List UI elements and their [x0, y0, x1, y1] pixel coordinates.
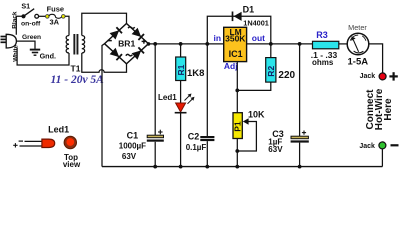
- svg-text:63V: 63V: [268, 145, 283, 154]
- wire C2: [206, 44, 208, 136]
- label - left: [108, 40, 112, 42]
- svg-text:10K: 10K: [248, 110, 265, 120]
- svg-text:Led1: Led1: [158, 93, 177, 102]
- wire wiper return: [237, 122, 256, 152]
- wire C3: [299, 44, 301, 136]
- node C3 bottom: [298, 165, 302, 169]
- svg-text:IC1: IC1: [229, 49, 243, 59]
- svg-text:R1: R1: [176, 64, 186, 75]
- svg-text:out: out: [252, 33, 265, 43]
- wire positive rail: [149, 43, 224, 45]
- svg-text:11 - 20v 5A: 11 - 20v 5A: [51, 74, 105, 86]
- node C2 bottom: [205, 165, 209, 169]
- svg-text:Fuse: Fuse: [47, 5, 65, 14]
- node C3 top: [298, 42, 302, 46]
- svg-text:Black: Black: [12, 11, 19, 29]
- wire P1 bottom: [236, 139, 238, 167]
- wire C1: [154, 44, 156, 135]
- resistor R1: [176, 57, 186, 81]
- node P1 bottom rail: [235, 165, 239, 169]
- svg-text:63V: 63V: [122, 152, 137, 161]
- wire R3 to meter: [339, 43, 347, 45]
- wire white (plug to primary bottom): [17, 48, 69, 65]
- switch S1: [21, 9, 38, 19]
- svg-text:Jack: Jack: [360, 73, 376, 80]
- label ~ bottom: [126, 54, 133, 55]
- svg-text:0.1µF: 0.1µF: [186, 143, 207, 152]
- svg-text:Jack: Jack: [359, 143, 375, 150]
- svg-text:on-off: on-off: [21, 21, 41, 28]
- svg-text:S1: S1: [21, 2, 30, 11]
- transformer T1: [66, 34, 85, 55]
- svg-text:C1: C1: [127, 131, 139, 141]
- svg-text:350K: 350K: [225, 34, 246, 44]
- svg-text:R3: R3: [316, 30, 328, 40]
- wire bridge minus down to bottom rail: [102, 44, 105, 167]
- wire secondary bottom to bridge (with hop): [82, 53, 127, 72]
- wire fuse to transformer primary: [65, 16, 69, 35]
- svg-text:D1: D1: [243, 4, 255, 14]
- node wiper junction: [235, 149, 239, 153]
- svg-text:Adj: Adj: [224, 61, 238, 71]
- svg-text:1-5A: 1-5A: [348, 56, 369, 67]
- plug AC: [1, 34, 17, 48]
- svg-text:Meter: Meter: [348, 23, 367, 32]
- node D1/R2 out: [269, 42, 273, 46]
- svg-text:Gnd.: Gnd.: [40, 52, 56, 61]
- resistor R2: [266, 58, 276, 83]
- node D1/C2: [205, 42, 209, 46]
- svg-text:ohms: ohms: [312, 58, 334, 67]
- svg-text:P1: P1: [233, 121, 243, 132]
- op-amp U1 : regulator IC1 LM350K: [224, 27, 247, 62]
- svg-text:view: view: [63, 160, 81, 169]
- node C1 top: [153, 42, 157, 46]
- label + right: [142, 40, 147, 42]
- Led1 pictorial group: [13, 125, 81, 169]
- label Connect Hot-Wire Here: [365, 88, 394, 130]
- diode bottom-right: [132, 50, 142, 59]
- wire D1 bypass: [207, 16, 270, 44]
- wire bottom rail: [102, 166, 382, 168]
- svg-text:in: in: [214, 33, 222, 43]
- node R2/Adj: [235, 89, 239, 93]
- meter M1: [347, 33, 369, 55]
- wire R1 top: [180, 44, 182, 57]
- LED side view: [25, 140, 43, 142]
- capacitor C2: [200, 136, 214, 141]
- symbol + lead: [13, 144, 17, 146]
- diode bottom-left: [110, 48, 120, 57]
- svg-text:220: 220: [278, 70, 295, 81]
- svg-text:1N4001: 1N4001: [243, 18, 269, 27]
- svg-text:1000µF: 1000µF: [119, 142, 146, 151]
- svg-text:T1: T1: [71, 63, 81, 73]
- bridge rectifier BR1: [105, 24, 149, 64]
- LED Led1: [175, 94, 195, 113]
- svg-text:BR1: BR1: [118, 38, 135, 48]
- wire R1 to LED: [180, 81, 182, 104]
- ground: [30, 50, 40, 56]
- wire - jack to bottom rail: [381, 149, 383, 167]
- node C1 bottom: [153, 165, 157, 169]
- svg-text:Green: Green: [22, 34, 41, 41]
- wire switch to fuse: [39, 15, 46, 17]
- symbol -: [391, 144, 399, 146]
- diode D1: [233, 12, 242, 22]
- svg-text:White: White: [12, 44, 19, 61]
- wire meter to + jack: [369, 44, 383, 73]
- symbol +: [389, 75, 397, 77]
- capacitor C1: [147, 130, 164, 142]
- wire LED to bottom rail: [180, 113, 182, 167]
- fuse F1 3A: [46, 14, 66, 18]
- resistor R3: [313, 41, 339, 49]
- wire secondary top to bridge: [82, 13, 127, 35]
- jack -: [379, 142, 386, 149]
- node R1 top: [179, 42, 183, 46]
- wire green (plug to ground): [16, 41, 35, 49]
- capacitor C3: [291, 131, 309, 143]
- svg-text:Here: Here: [383, 98, 394, 121]
- symbol - lead: [19, 140, 23, 142]
- node LED bottom: [179, 165, 183, 169]
- svg-text:R2: R2: [266, 66, 276, 77]
- diode top-left: [110, 30, 120, 39]
- wire Adj down: [236, 62, 238, 113]
- wire R2 top: [270, 44, 272, 58]
- svg-text:Led1: Led1: [48, 125, 69, 135]
- svg-text:3A: 3A: [50, 17, 60, 26]
- wire R2 bottom to Adj: [237, 82, 270, 90]
- svg-text:1K8: 1K8: [187, 68, 204, 79]
- LED top view: [64, 136, 76, 148]
- potentiometer P1: [233, 113, 249, 139]
- jack +: [379, 73, 386, 80]
- label ~ top: [128, 27, 135, 28]
- wire black (plug to switch): [16, 16, 21, 35]
- svg-text:C2: C2: [188, 132, 200, 142]
- node bridge +: [147, 42, 151, 46]
- diode top-right: [132, 28, 142, 37]
